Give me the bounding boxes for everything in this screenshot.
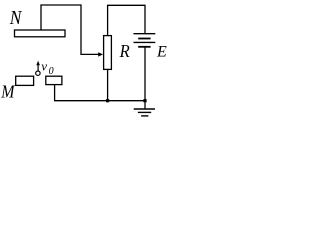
svg-text:v: v <box>41 58 47 73</box>
svg-text:R: R <box>119 41 130 61</box>
svg-text:N: N <box>9 7 23 30</box>
svg-text:E: E <box>156 44 167 61</box>
svg-text:M: M <box>0 82 15 102</box>
svg-text:0: 0 <box>49 66 54 77</box>
